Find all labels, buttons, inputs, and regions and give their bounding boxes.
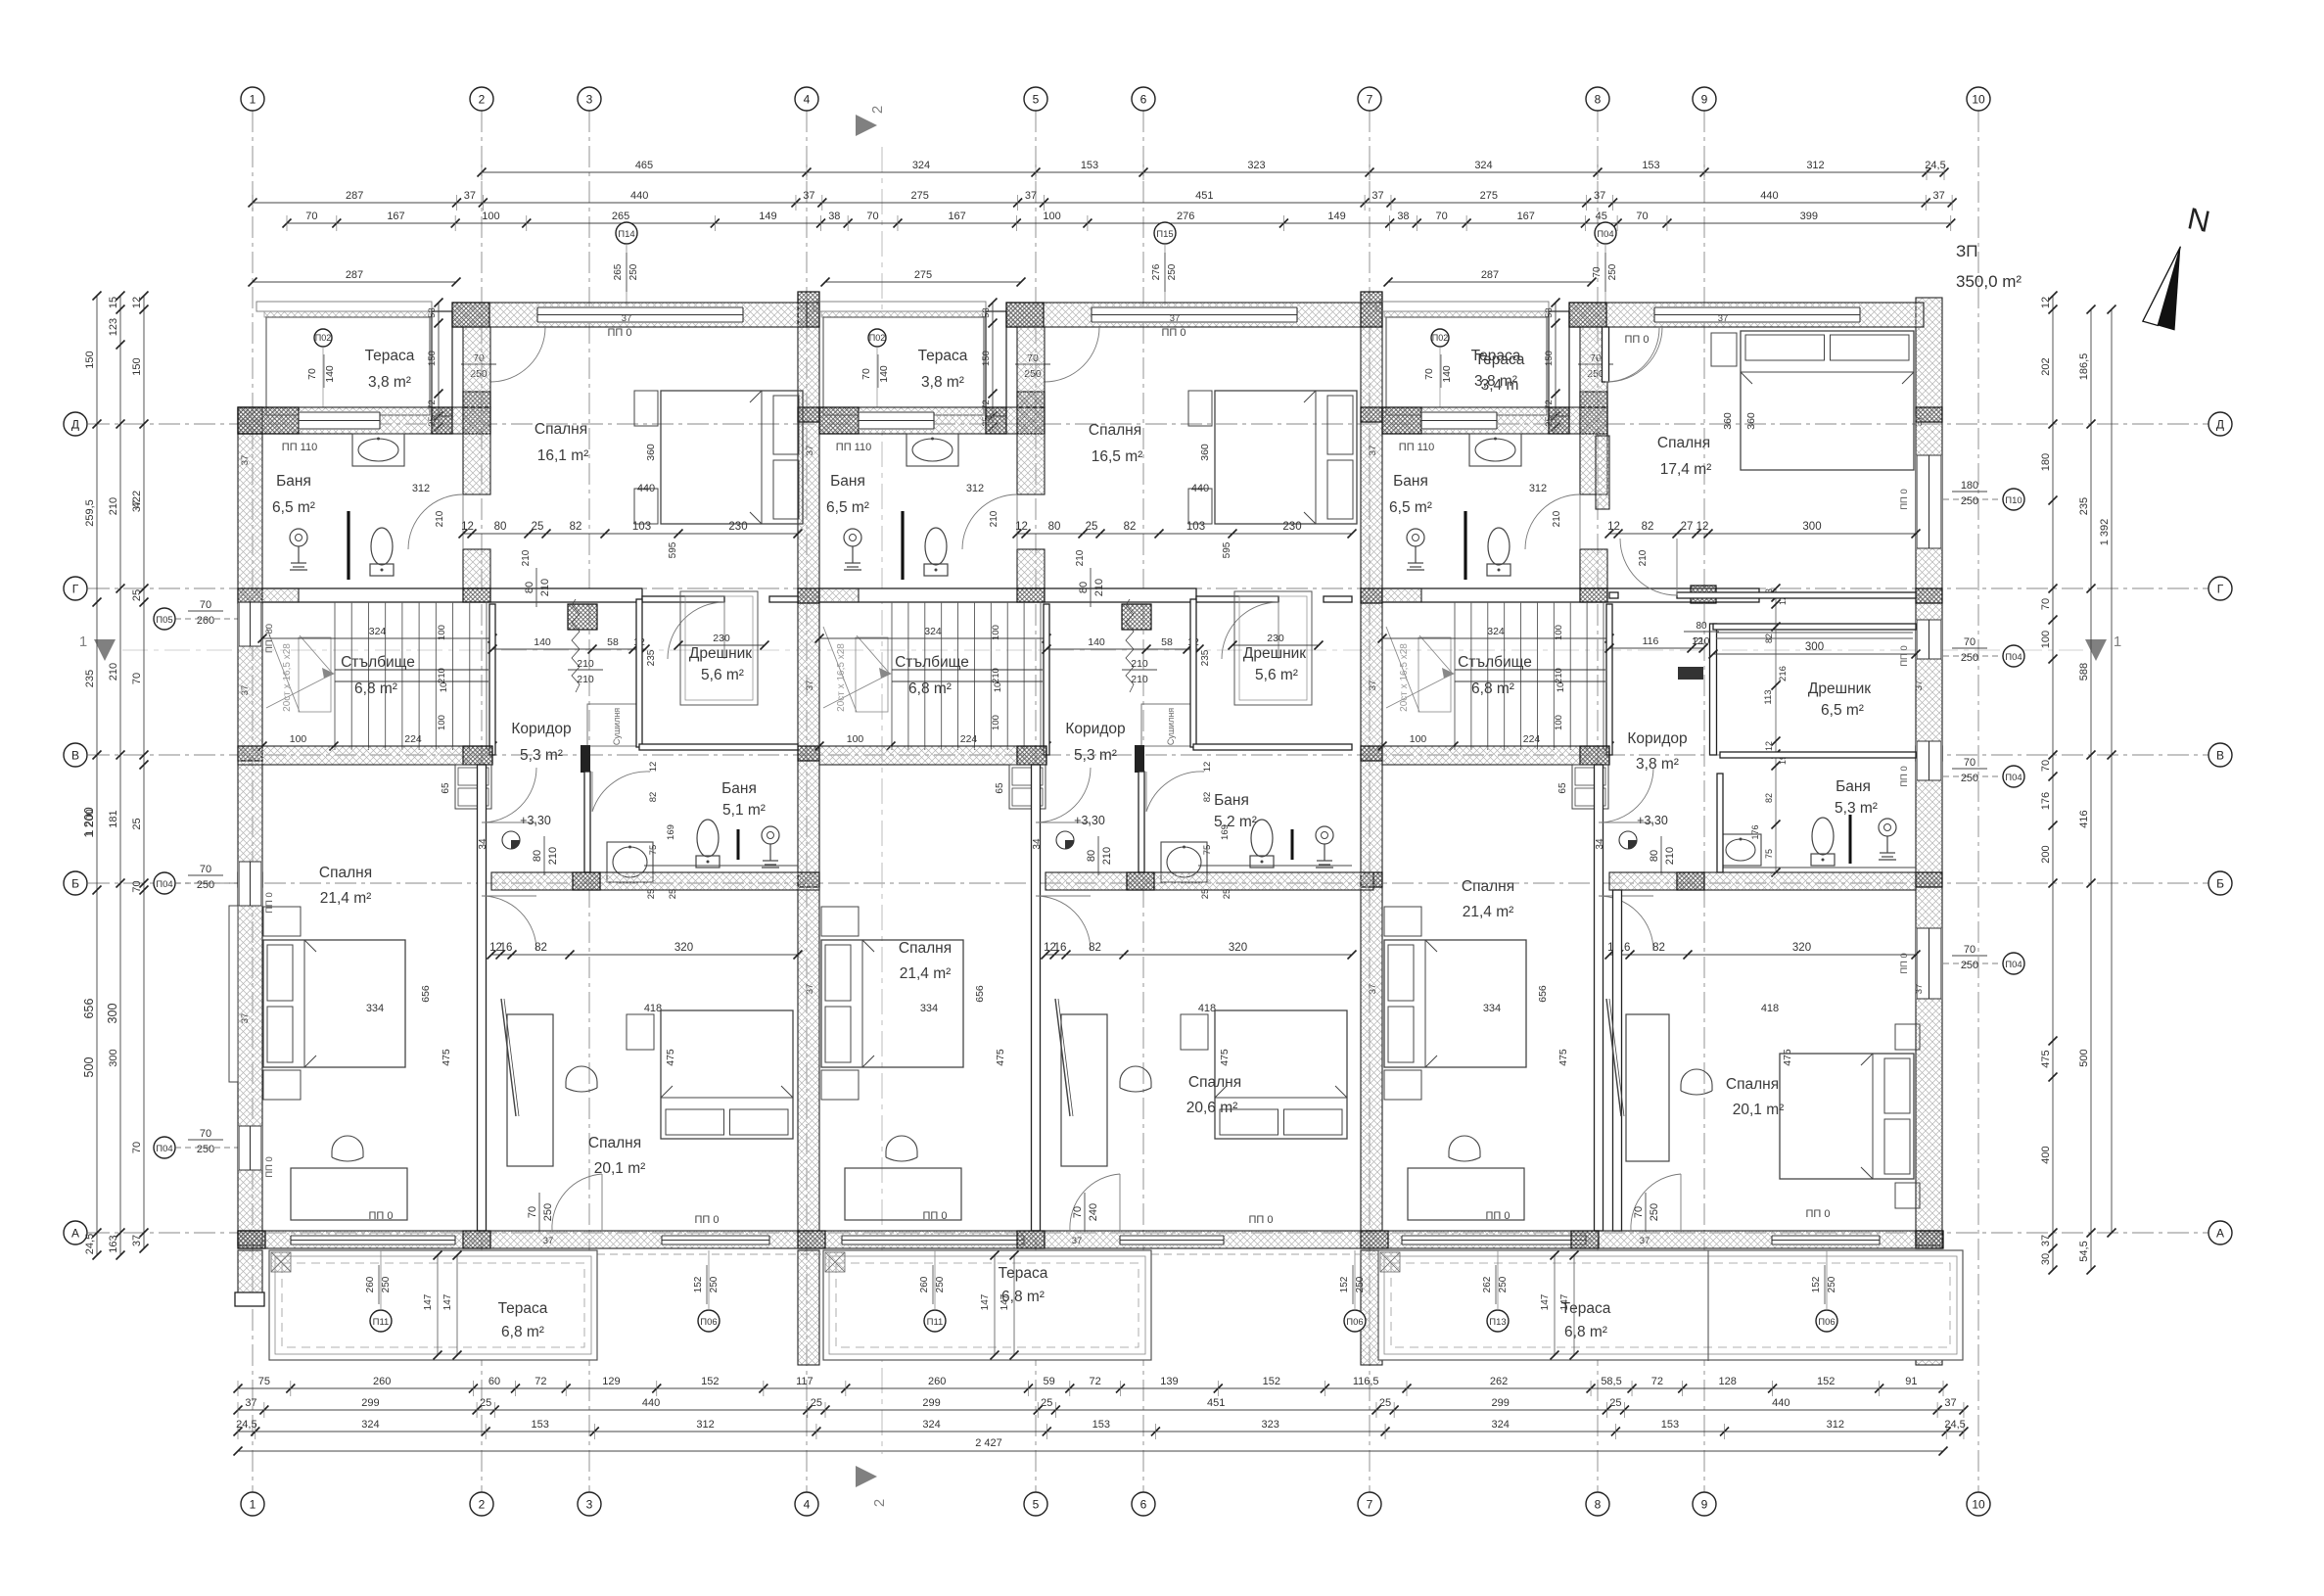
svg-text:422: 422 — [131, 491, 143, 508]
svg-text:70: 70 — [1964, 636, 1975, 648]
svg-text:82: 82 — [1202, 792, 1213, 803]
svg-text:235: 235 — [1200, 649, 1211, 666]
svg-text:70: 70 — [2040, 760, 2052, 772]
svg-text:Сушилня: Сушилня — [612, 708, 622, 745]
svg-text:475: 475 — [1782, 1049, 1793, 1066]
svg-text:Спалня: Спалня — [1726, 1076, 1779, 1093]
svg-text:334: 334 — [920, 1003, 938, 1014]
svg-text:250: 250 — [1961, 773, 1978, 784]
svg-text:П05: П05 — [156, 615, 172, 626]
svg-text:260: 260 — [373, 1376, 391, 1387]
svg-text:ПП 0: ПП 0 — [1625, 334, 1650, 346]
svg-text:210: 210 — [1075, 549, 1086, 566]
svg-text:16: 16 — [1054, 942, 1067, 954]
svg-text:324: 324 — [924, 626, 942, 637]
svg-text:210: 210 — [437, 668, 447, 683]
svg-text:2: 2 — [869, 106, 886, 114]
svg-text:Тераса: Тераса — [365, 348, 415, 364]
svg-text:334: 334 — [1483, 1003, 1501, 1014]
svg-text:Спалня: Спалня — [1089, 422, 1141, 439]
svg-text:Баня: Баня — [276, 473, 311, 490]
svg-text:260: 260 — [365, 1276, 376, 1292]
svg-text:А: А — [71, 1227, 79, 1241]
svg-text:Спалня: Спалня — [535, 421, 587, 438]
svg-text:П14: П14 — [618, 229, 634, 240]
svg-text:75: 75 — [1764, 849, 1774, 859]
svg-text:147: 147 — [1540, 1293, 1551, 1310]
svg-text:70: 70 — [200, 864, 211, 875]
svg-text:ПП 0: ПП 0 — [923, 1210, 948, 1222]
svg-text:34: 34 — [1595, 838, 1605, 850]
svg-text:399: 399 — [1800, 211, 1818, 222]
svg-text:58,5: 58,5 — [1601, 1376, 1621, 1387]
svg-text:70: 70 — [131, 673, 143, 684]
svg-text:140: 140 — [534, 636, 551, 648]
svg-text:7: 7 — [1367, 93, 1373, 107]
svg-text:210: 210 — [577, 674, 594, 685]
svg-text:230: 230 — [1282, 521, 1301, 533]
svg-text:Спалня: Спалня — [319, 865, 372, 881]
svg-text:82: 82 — [1124, 521, 1137, 533]
svg-text:6,5 m²: 6,5 m² — [826, 499, 869, 516]
svg-text:П04: П04 — [2005, 773, 2022, 783]
svg-text:5,1 m²: 5,1 m² — [722, 802, 766, 819]
svg-text:34: 34 — [1032, 838, 1043, 850]
svg-text:235: 235 — [2078, 497, 2090, 515]
svg-text:37: 37 — [240, 455, 251, 466]
svg-text:5,6 m²: 5,6 m² — [1255, 667, 1298, 683]
svg-text:287: 287 — [346, 190, 363, 202]
svg-text:1: 1 — [250, 93, 256, 107]
svg-text:324: 324 — [1492, 1419, 1510, 1431]
svg-text:299: 299 — [922, 1397, 940, 1409]
svg-text:176: 176 — [1750, 824, 1760, 839]
svg-text:153: 153 — [1661, 1419, 1679, 1431]
svg-text:Б: Б — [2216, 877, 2224, 891]
svg-text:ПП 0: ПП 0 — [1899, 645, 1910, 667]
svg-text:116,5: 116,5 — [1353, 1376, 1379, 1387]
svg-text:100: 100 — [437, 715, 447, 730]
svg-text:440: 440 — [1772, 1397, 1789, 1409]
svg-text:53: 53 — [981, 307, 992, 318]
svg-text:21,4 m²: 21,4 m² — [900, 965, 952, 982]
svg-text:216: 216 — [1778, 666, 1789, 681]
svg-text:37: 37 — [543, 1236, 554, 1246]
svg-text:25: 25 — [131, 589, 143, 601]
svg-text:250: 250 — [628, 263, 639, 280]
svg-text:6,5 m²: 6,5 m² — [272, 499, 315, 516]
svg-text:12: 12 — [1202, 762, 1213, 773]
svg-text:21,4 m²: 21,4 m² — [320, 890, 372, 907]
svg-text:210: 210 — [577, 658, 594, 670]
svg-text:37: 37 — [240, 1013, 251, 1024]
svg-text:475: 475 — [1219, 1049, 1231, 1066]
svg-text:2: 2 — [871, 1499, 888, 1507]
svg-text:250: 250 — [1355, 1276, 1366, 1292]
svg-text:80: 80 — [1696, 621, 1707, 632]
svg-text:П04: П04 — [156, 879, 172, 890]
svg-text:65: 65 — [995, 782, 1005, 794]
svg-text:260: 260 — [928, 1376, 946, 1387]
svg-text:230: 230 — [713, 633, 730, 644]
svg-text:1 392: 1 392 — [2099, 519, 2111, 546]
svg-text:25: 25 — [1379, 1397, 1391, 1409]
svg-text:152: 152 — [1811, 1276, 1822, 1292]
svg-text:12: 12 — [648, 762, 659, 773]
svg-text:324: 324 — [912, 160, 930, 171]
svg-text:6,5 m²: 6,5 m² — [1389, 499, 1432, 516]
svg-text:299: 299 — [361, 1397, 379, 1409]
svg-text:ПП 0: ПП 0 — [264, 892, 275, 914]
svg-text:80: 80 — [1649, 850, 1660, 862]
svg-text:169: 169 — [666, 824, 676, 840]
svg-text:37: 37 — [1072, 1236, 1083, 1246]
svg-text:250: 250 — [1961, 652, 1978, 664]
svg-text:100: 100 — [482, 211, 499, 222]
svg-text:595: 595 — [668, 541, 678, 558]
svg-text:240: 240 — [1088, 1203, 1099, 1221]
svg-text:В: В — [2216, 749, 2224, 763]
svg-text:П02: П02 — [315, 333, 331, 343]
svg-text:100: 100 — [290, 733, 307, 745]
svg-text:475: 475 — [995, 1049, 1006, 1066]
svg-text:312: 312 — [1806, 160, 1824, 171]
svg-text:5,3 m²: 5,3 m² — [1074, 747, 1117, 764]
svg-text:100: 100 — [1554, 715, 1564, 730]
svg-text:250: 250 — [935, 1276, 946, 1292]
svg-text:34: 34 — [478, 838, 488, 850]
svg-text:37: 37 — [240, 685, 251, 696]
svg-text:3,8 m²: 3,8 m² — [1636, 756, 1679, 773]
svg-text:ПП 110: ПП 110 — [282, 442, 317, 453]
svg-text:210: 210 — [1554, 668, 1564, 683]
svg-text:65: 65 — [441, 782, 451, 794]
svg-text:656: 656 — [420, 985, 432, 1003]
svg-text:500: 500 — [82, 1057, 96, 1078]
svg-text:451: 451 — [1195, 190, 1213, 202]
svg-text:Тераса: Тераса — [498, 1300, 548, 1317]
svg-text:400: 400 — [2040, 1146, 2052, 1163]
svg-text:312: 312 — [1827, 1419, 1844, 1431]
svg-text:Баня: Баня — [1836, 778, 1871, 795]
svg-text:265: 265 — [612, 211, 629, 222]
svg-text:465: 465 — [635, 160, 653, 171]
svg-text:П04: П04 — [1597, 229, 1613, 240]
svg-text:595: 595 — [1222, 541, 1232, 558]
svg-text:Дрешник: Дрешник — [689, 645, 752, 662]
svg-text:147: 147 — [1559, 1293, 1570, 1310]
svg-text:16,5 m²: 16,5 m² — [1092, 448, 1143, 465]
svg-text:37: 37 — [622, 313, 632, 324]
svg-text:Баня: Баня — [830, 473, 865, 490]
svg-text:82: 82 — [570, 521, 582, 533]
svg-text:Тераса: Тераса — [1475, 352, 1525, 368]
svg-text:312: 312 — [412, 483, 430, 494]
svg-text:418: 418 — [644, 1003, 662, 1014]
svg-text:334: 334 — [366, 1003, 384, 1014]
svg-text:37: 37 — [2040, 1235, 2052, 1246]
svg-text:17,4 m²: 17,4 m² — [1660, 461, 1712, 478]
svg-text:10: 10 — [993, 682, 1003, 693]
svg-text:37: 37 — [1368, 681, 1378, 691]
svg-text:91: 91 — [1905, 1376, 1917, 1387]
svg-text:37: 37 — [1944, 1397, 1956, 1409]
svg-text:210: 210 — [435, 510, 445, 527]
svg-text:262: 262 — [1490, 1376, 1508, 1387]
svg-text:656: 656 — [82, 999, 96, 1019]
svg-text:210: 210 — [539, 579, 551, 596]
svg-text:300: 300 — [1802, 521, 1821, 533]
svg-text:ЗП: ЗП — [1956, 242, 1978, 260]
svg-text:70: 70 — [306, 368, 318, 380]
svg-text:ПП 110: ПП 110 — [836, 442, 871, 453]
svg-text:153: 153 — [1642, 160, 1659, 171]
svg-text:250: 250 — [542, 1203, 554, 1221]
svg-text:147: 147 — [980, 1293, 991, 1310]
svg-text:153: 153 — [1081, 160, 1098, 171]
svg-text:262: 262 — [1482, 1276, 1493, 1292]
svg-text:П02: П02 — [1432, 333, 1448, 343]
svg-text:440: 440 — [1760, 190, 1778, 202]
svg-text:37: 37 — [805, 681, 815, 691]
svg-text:250: 250 — [197, 879, 214, 891]
svg-text:210: 210 — [1552, 510, 1562, 527]
svg-text:440: 440 — [630, 190, 648, 202]
svg-text:П02: П02 — [869, 333, 885, 343]
svg-text:129: 129 — [602, 1376, 620, 1387]
svg-text:276: 276 — [1151, 263, 1162, 280]
svg-text:58: 58 — [607, 636, 619, 648]
svg-text:ПП 0: ПП 0 — [1899, 766, 1910, 787]
svg-text:312: 312 — [1529, 483, 1547, 494]
svg-text:224: 224 — [1523, 733, 1541, 745]
svg-text:150: 150 — [1544, 351, 1555, 366]
svg-text:Дрешник: Дрешник — [1808, 681, 1871, 697]
svg-text:451: 451 — [1207, 1397, 1225, 1409]
svg-text:58: 58 — [1161, 636, 1173, 648]
svg-text:2 427: 2 427 — [975, 1437, 1002, 1449]
svg-text:299: 299 — [1492, 1397, 1510, 1409]
svg-text:6,8 m²: 6,8 m² — [908, 681, 952, 697]
svg-text:656: 656 — [1537, 985, 1549, 1003]
svg-text:8: 8 — [1595, 1498, 1602, 1512]
svg-text:80: 80 — [1048, 521, 1061, 533]
svg-text:70: 70 — [200, 599, 211, 611]
svg-text:440: 440 — [1191, 483, 1209, 494]
svg-text:ПП 0: ПП 0 — [1806, 1208, 1831, 1220]
svg-text:70: 70 — [866, 211, 878, 222]
svg-text:656: 656 — [974, 985, 986, 1003]
svg-text:210: 210 — [1694, 636, 1710, 647]
svg-text:Д: Д — [71, 418, 79, 432]
svg-text:+3,30: +3,30 — [1074, 814, 1105, 827]
svg-text:235: 235 — [646, 649, 657, 666]
svg-text:167: 167 — [387, 211, 404, 222]
svg-text:210: 210 — [1101, 847, 1113, 865]
svg-text:П04: П04 — [2005, 652, 2022, 663]
svg-text:250: 250 — [381, 1276, 392, 1292]
svg-text:ПП 0: ПП 0 — [1249, 1214, 1274, 1226]
svg-text:202: 202 — [2040, 357, 2052, 375]
svg-text:324: 324 — [361, 1419, 379, 1431]
svg-text:163: 163 — [108, 1235, 119, 1252]
svg-text:70: 70 — [1964, 944, 1975, 956]
svg-text:45: 45 — [1596, 211, 1607, 222]
svg-text:9: 9 — [1701, 1498, 1708, 1512]
svg-text:А: А — [2216, 1227, 2224, 1241]
svg-text:П06: П06 — [700, 1317, 717, 1328]
svg-text:275: 275 — [911, 190, 929, 202]
svg-text:2: 2 — [479, 1498, 486, 1512]
svg-text:82: 82 — [1764, 793, 1774, 803]
svg-text:210: 210 — [1131, 674, 1148, 685]
svg-text:Спалня: Спалня — [588, 1135, 641, 1151]
svg-text:140: 140 — [878, 365, 890, 383]
svg-text:Б: Б — [71, 877, 79, 891]
svg-text:100: 100 — [991, 715, 1001, 730]
svg-text:Коридор: Коридор — [511, 721, 571, 737]
svg-text:70: 70 — [1633, 1206, 1645, 1218]
svg-text:12: 12 — [1607, 521, 1620, 533]
svg-text:123: 123 — [108, 318, 119, 336]
svg-text:П10: П10 — [2005, 495, 2022, 506]
svg-text:25: 25 — [480, 1397, 491, 1409]
svg-text:153: 153 — [532, 1419, 549, 1431]
svg-text:80: 80 — [532, 850, 543, 862]
svg-text:250: 250 — [1649, 1203, 1660, 1221]
svg-text:Коридор: Коридор — [1065, 721, 1125, 737]
svg-text:37: 37 — [1640, 1236, 1650, 1246]
svg-text:186,5: 186,5 — [2078, 353, 2090, 381]
svg-text:80: 80 — [1086, 850, 1097, 862]
svg-text:ПП -80: ПП -80 — [264, 624, 275, 653]
svg-text:Баня: Баня — [721, 780, 757, 797]
svg-text:70: 70 — [1636, 211, 1648, 222]
svg-text:37: 37 — [1914, 416, 1925, 427]
svg-text:Стълбище: Стълбище — [1458, 654, 1532, 671]
svg-text:3,8 m²: 3,8 m² — [368, 374, 411, 391]
svg-text:37: 37 — [803, 190, 814, 202]
svg-text:25: 25 — [1086, 521, 1098, 533]
svg-text:70: 70 — [305, 211, 317, 222]
svg-text:15: 15 — [108, 297, 119, 308]
svg-text:250: 250 — [1961, 960, 1978, 971]
svg-text:20ст x 16,5 x28: 20ст x 16,5 x28 — [282, 643, 293, 712]
svg-text:ПП 0: ПП 0 — [1899, 953, 1910, 974]
svg-text:Г: Г — [2217, 583, 2224, 596]
svg-text:300: 300 — [108, 1049, 119, 1066]
svg-text:5,3 m²: 5,3 m² — [520, 747, 563, 764]
svg-text:1: 1 — [79, 634, 87, 650]
svg-text:75: 75 — [258, 1376, 270, 1387]
svg-text:117: 117 — [796, 1376, 813, 1387]
svg-text:25: 25 — [1609, 1397, 1621, 1409]
svg-text:25: 25 — [811, 1397, 822, 1409]
svg-text:1 200: 1 200 — [82, 807, 96, 837]
svg-text:70: 70 — [1436, 211, 1448, 222]
svg-text:82: 82 — [535, 942, 547, 954]
svg-text:150: 150 — [981, 351, 992, 366]
svg-text:20,6 m²: 20,6 m² — [1186, 1100, 1238, 1116]
svg-text:П04: П04 — [156, 1144, 172, 1154]
svg-text:210: 210 — [1093, 579, 1105, 596]
svg-text:475: 475 — [1557, 1049, 1569, 1066]
svg-text:210: 210 — [108, 497, 119, 515]
svg-text:500: 500 — [2078, 1049, 2090, 1066]
svg-text:6,8 m²: 6,8 m² — [501, 1324, 544, 1340]
svg-text:150: 150 — [131, 357, 143, 375]
svg-text:70: 70 — [860, 368, 872, 380]
svg-text:100: 100 — [991, 625, 1001, 640]
svg-text:70: 70 — [1964, 757, 1975, 769]
svg-text:38: 38 — [1397, 211, 1409, 222]
svg-text:5,3 m²: 5,3 m² — [1835, 800, 1878, 817]
svg-text:Тераса: Тераса — [918, 348, 968, 364]
svg-text:24,5: 24,5 — [1925, 160, 1945, 171]
svg-text:70: 70 — [527, 1206, 538, 1218]
svg-text:3: 3 — [586, 1498, 593, 1512]
svg-text:37: 37 — [805, 446, 815, 456]
svg-text:210: 210 — [989, 510, 999, 527]
svg-text:80: 80 — [494, 521, 507, 533]
svg-text:37: 37 — [805, 984, 815, 995]
svg-text:147: 147 — [442, 1293, 453, 1310]
svg-text:72: 72 — [1090, 1376, 1101, 1387]
svg-text:37: 37 — [1025, 190, 1037, 202]
svg-text:70: 70 — [1592, 266, 1603, 278]
svg-text:20,1 m²: 20,1 m² — [594, 1160, 646, 1177]
svg-text:324: 324 — [369, 626, 387, 637]
svg-text:5: 5 — [1033, 93, 1040, 107]
svg-text:300: 300 — [106, 1004, 119, 1024]
svg-text:260: 260 — [197, 615, 214, 627]
svg-text:Баня: Баня — [1214, 792, 1249, 809]
svg-text:82: 82 — [1089, 942, 1101, 954]
svg-text:312: 312 — [696, 1419, 714, 1431]
svg-text:320: 320 — [674, 942, 693, 954]
svg-text:В: В — [71, 749, 79, 763]
svg-text:324: 324 — [1487, 626, 1505, 637]
svg-text:259,5: 259,5 — [84, 499, 96, 527]
svg-text:320: 320 — [1792, 942, 1811, 954]
svg-text:21,4 m²: 21,4 m² — [1463, 904, 1514, 920]
svg-text:360: 360 — [1745, 412, 1757, 430]
svg-text:ПП 0: ПП 0 — [1486, 1210, 1511, 1222]
svg-text:150: 150 — [427, 351, 438, 366]
svg-text:250: 250 — [1827, 1276, 1837, 1292]
svg-text:82: 82 — [648, 792, 659, 803]
svg-text:Стълбище: Стълбище — [341, 654, 415, 671]
svg-text:176: 176 — [2040, 792, 2052, 810]
svg-text:210: 210 — [521, 549, 532, 566]
svg-text:30: 30 — [2040, 1253, 2052, 1265]
svg-text:6: 6 — [1140, 93, 1147, 107]
svg-text:37: 37 — [1933, 190, 1945, 202]
svg-text:360: 360 — [645, 444, 657, 461]
svg-text:25: 25 — [131, 818, 143, 829]
svg-text:82: 82 — [1642, 521, 1654, 533]
svg-text:24,5: 24,5 — [1944, 1419, 1965, 1431]
svg-text:210: 210 — [991, 668, 1001, 683]
svg-text:5,2 m²: 5,2 m² — [1214, 814, 1257, 830]
svg-text:100: 100 — [2040, 631, 2052, 648]
svg-text:224: 224 — [404, 733, 422, 745]
svg-text:8: 8 — [1595, 93, 1602, 107]
svg-text:149: 149 — [1327, 211, 1345, 222]
svg-text:103: 103 — [632, 521, 651, 533]
svg-text:152: 152 — [701, 1376, 719, 1387]
svg-text:418: 418 — [1761, 1003, 1779, 1014]
